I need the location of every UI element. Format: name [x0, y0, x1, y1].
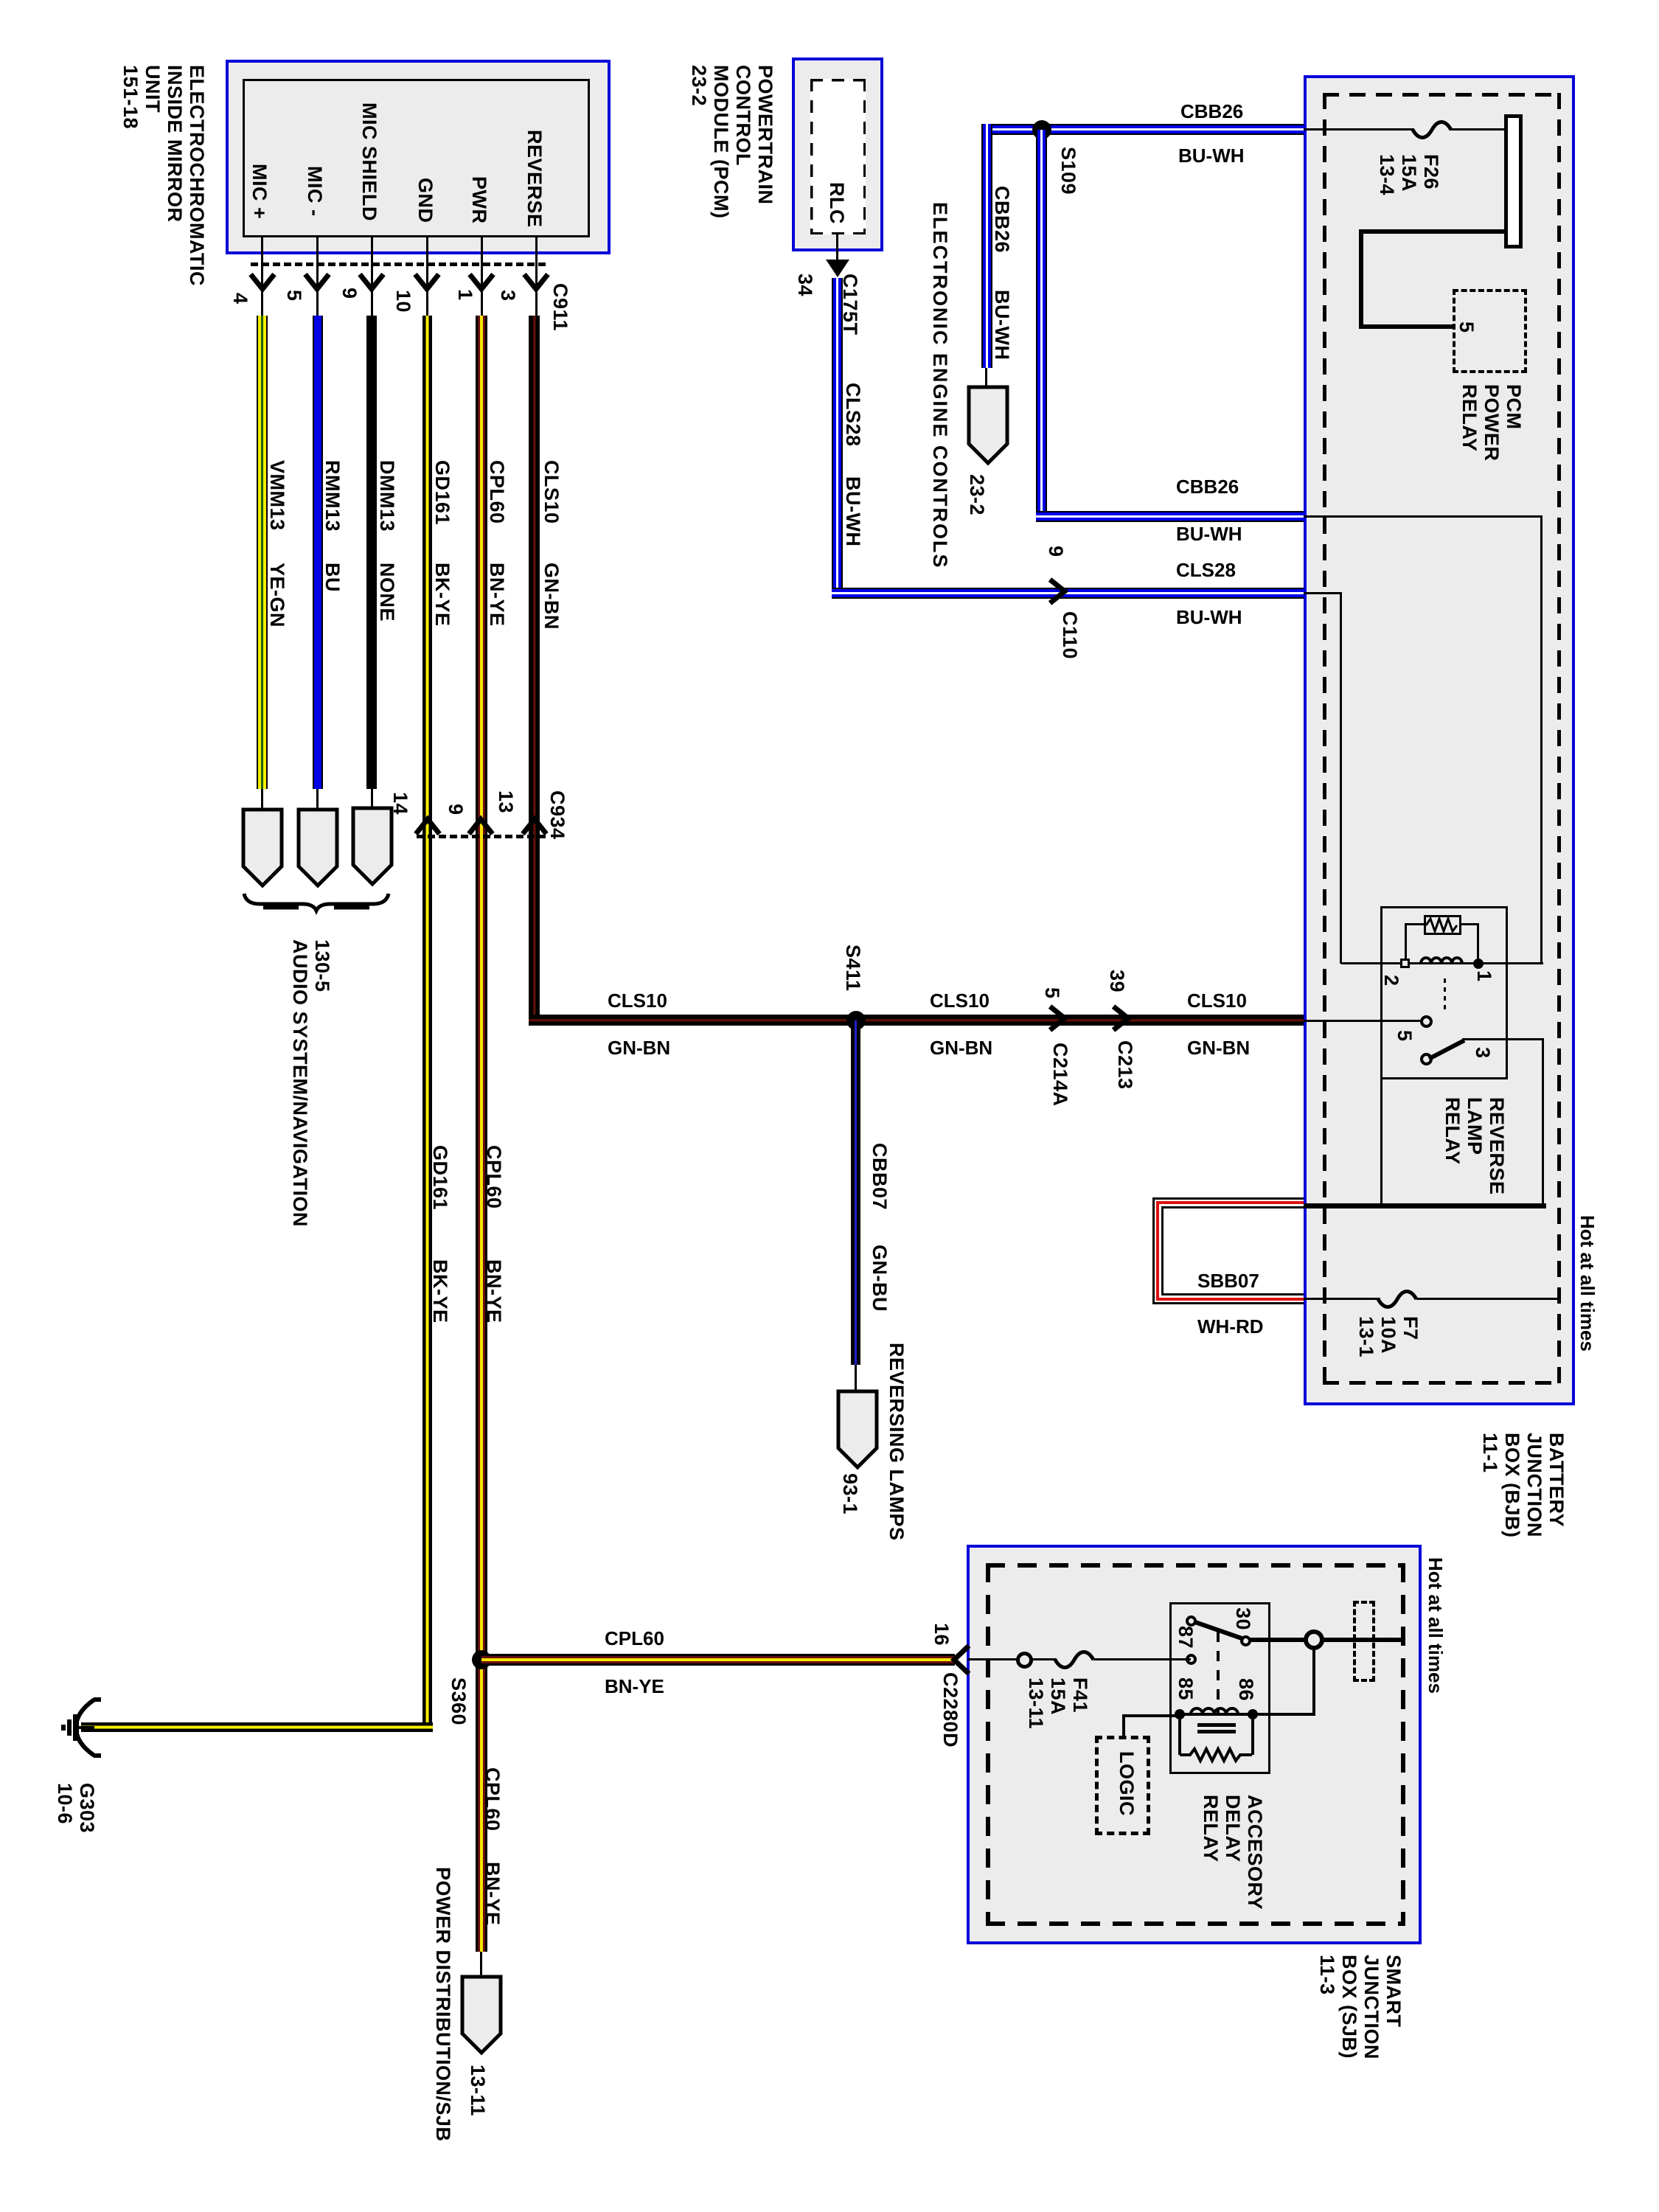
wire bus bar to PCM power relay (vertical segment) [1359, 229, 1363, 329]
resistor zigzag (accessory delay relay) [1180, 1746, 1253, 1764]
stub from RLC [836, 234, 838, 264]
component box BJB [1304, 75, 1575, 1405]
label POWERTRAIN CONTROL MODULE (PCM) 23-2 [688, 65, 776, 218]
dashed box PCM POWER RELAY [1453, 289, 1527, 373]
thick output bus to SBB07 [1302, 1203, 1546, 1208]
dashed component on thick line [1353, 1601, 1375, 1682]
label 13-11 [467, 2065, 489, 2116]
pin 13 [495, 790, 517, 813]
coil core line 2 [1197, 1730, 1236, 1733]
connector label C2280D [939, 1672, 961, 1747]
fuse F41 15A 13-11 [1054, 1641, 1096, 1679]
label REVERSING LAMPS [886, 1343, 908, 1541]
label SBB07 [1197, 1270, 1259, 1292]
wire name CLS28 [842, 383, 864, 447]
wire name CBB26 (EEC branch) [991, 186, 1013, 253]
wire CPL60 BN-YE vertical [476, 316, 487, 1952]
label 130-5 AUDIO SYSTEM/NAVIGATION [289, 939, 333, 1227]
line from circle down to coil (horizontal to pin 86) [1253, 1713, 1315, 1716]
C934 arrows [398, 815, 575, 844]
connector arrow to audio system (mic shield) [351, 806, 394, 887]
pin name MIC - [304, 166, 326, 216]
wire stub pin 4 [261, 237, 263, 320]
wire name DMM13 [376, 460, 398, 532]
bus bar [1504, 114, 1523, 248]
wire SBB07 WH-RD loop inner [1161, 1206, 1304, 1295]
junction S360 [472, 1650, 491, 1669]
wire color BK-YE [431, 563, 453, 627]
pin 3 line horizontal [1462, 1038, 1544, 1040]
connector label C213 [1114, 1040, 1136, 1090]
wire name GD161 [431, 460, 453, 525]
dashed box LOGIC [1095, 1736, 1150, 1835]
pin name GND [414, 178, 437, 223]
wire circle to fuse F41 [1032, 1658, 1057, 1660]
stub to EEC connector [985, 368, 987, 389]
wire stub pin 5 [316, 237, 319, 320]
label CLS10 (mid) [930, 990, 990, 1012]
wire name RMM13 [321, 460, 344, 532]
pin 2 terminal [1400, 959, 1410, 968]
wire bus bar to PCM power relay (top segment) [1359, 229, 1504, 234]
pin 86 label [1235, 1678, 1257, 1701]
pin 85 label [1175, 1677, 1197, 1700]
wire name CPL60 (lower) [483, 1145, 505, 1209]
wire fuse F26 to bus bar [1450, 128, 1506, 131]
wire fuse F7 to hot at all times [1416, 1298, 1561, 1300]
pin 5 [283, 290, 305, 302]
wire CBB26 BU-WH vertical from S109 [1036, 130, 1047, 522]
label CBB26 (second) [1176, 476, 1239, 498]
label CBB26 (top) [1180, 100, 1243, 122]
pin 87 switch circle [1186, 1615, 1197, 1627]
relay coil line [1341, 962, 1543, 964]
pin 5 feed line (CLS10) [1304, 1020, 1420, 1022]
wire CBB26 BU-WH horizontal top [981, 124, 1304, 135]
line from circle down to coil (vertical) [1312, 1649, 1315, 1714]
wire name CPL60 [486, 460, 508, 524]
pin 5 (PCM power relay) [1455, 321, 1478, 333]
connector arrow reversing lamps [836, 1389, 879, 1470]
wire stub pin 3 [535, 237, 538, 320]
wire CLS10 GN-BN vertical [529, 316, 540, 1026]
relay coil bumps [1419, 951, 1467, 964]
F26 feed line [1304, 128, 1414, 131]
wire VMM13 YE-GN vertical [257, 316, 268, 789]
wire color BK-YE (lower) [429, 1259, 451, 1324]
wire stub pin 1 [481, 237, 483, 320]
brace under mic connectors [240, 888, 394, 918]
coil terminal pin 85 [1175, 1709, 1185, 1719]
wire CBB26 BU-WH vertical to EEC [981, 124, 992, 368]
wire color NONE [376, 563, 398, 622]
wire SBB07 WH-RD loop outer [1152, 1197, 1304, 1304]
pin 30 contact circle [1240, 1635, 1251, 1646]
F7 feed line [1304, 1298, 1380, 1300]
pin 87 input circle [1186, 1654, 1197, 1665]
resistor lead left vertical [1405, 923, 1407, 964]
SJB inner dashed border [986, 1563, 1405, 1926]
resistor lead right horizontal [1461, 923, 1478, 925]
wire color BU-WH [842, 476, 864, 546]
label BU-WH (top) [1178, 145, 1245, 167]
label S109 [1057, 147, 1079, 195]
wire color YE-GN [266, 563, 288, 627]
fuse F7 10A 13-1 [1377, 1280, 1419, 1318]
pin name PWR [468, 176, 490, 224]
wire DMM13 BK vertical [366, 316, 377, 789]
pin name REVERSE [524, 130, 546, 228]
pin 4 [229, 293, 251, 305]
pin 1 label [1473, 970, 1495, 982]
CBB26 feed line inside BJB (horizontal) [1304, 515, 1543, 518]
switch arm [1423, 1031, 1470, 1062]
component box PCM [792, 58, 883, 251]
connector label C110 [1059, 611, 1081, 659]
connector arrow to audio system (mic +) [241, 807, 284, 888]
connector C934 dashed line [417, 835, 546, 838]
label ACCESORY DELAY RELAY [1200, 1795, 1266, 1910]
pin 14 [389, 792, 411, 815]
wire CBB26 BU-WH horizontal to BJB (second) [1036, 511, 1304, 522]
pin 9 (C110) [1045, 546, 1067, 557]
line LOGIC to 85 (horizontal) [1122, 1714, 1181, 1717]
label Hot at all times (SJB) [1425, 1557, 1447, 1694]
wire color BN-YE (below S360) [481, 1862, 504, 1926]
mic- wire stub to connector [316, 789, 319, 811]
label 23-2 [966, 474, 988, 515]
resistor lead left horizontal [1405, 923, 1424, 925]
pin 3 line vertical [1542, 1038, 1544, 1207]
dashed box RLC [810, 79, 866, 234]
label GN-BN (left) [608, 1037, 670, 1059]
component box: electrochromatic inside mirror unit [226, 60, 611, 254]
resistor zigzag [1426, 917, 1459, 933]
wire color BN-YE (lower) [483, 1259, 505, 1324]
pin 5 contact circle [1420, 1015, 1433, 1028]
wire stub pin 10 [426, 237, 428, 320]
pin 9 (C934) [445, 804, 467, 815]
pin name MIC + [248, 164, 271, 219]
wire GD161 BK-YE vertical [422, 316, 432, 1728]
ground label G303 10-6 [54, 1783, 98, 1833]
resistor lead right vertical [1477, 923, 1479, 964]
connector label C934 [546, 790, 568, 840]
stub to power distribution connector [480, 1952, 482, 1977]
connector C911 dashed line [251, 262, 546, 266]
label ELECTROCHROMATIC INSIDE MIRROR UNIT 151-18 [119, 65, 208, 286]
dashed link switch [1217, 1632, 1220, 1714]
wire name CPL60 (below S360) [481, 1767, 504, 1832]
wire bus bar to PCM power relay (bottom segment) [1359, 324, 1455, 329]
label PCM POWER RELAY [1458, 384, 1525, 462]
pin 16 [931, 1623, 953, 1646]
pin 1 terminal [1473, 959, 1484, 969]
wire CBB07 GN-BU vertical [851, 1020, 860, 1365]
connector arrow power distribution [460, 1975, 503, 2056]
fuse F26 15A 13-4 [1411, 111, 1454, 149]
label BATTERY JUNCTION BOX (BJB) 11-1 [1479, 1433, 1568, 1538]
F41 feed line [967, 1658, 1019, 1660]
mic+ wire stub to connector [261, 789, 263, 811]
thick line pin 30 to right [1248, 1638, 1405, 1642]
inline circle on thick line [1304, 1630, 1324, 1650]
pin 3 [497, 290, 519, 302]
wire CPL60 BN-YE horizontal to SJB [481, 1654, 955, 1666]
pin 39 (C213) [1106, 970, 1128, 992]
pin name MIC SHIELD [358, 102, 380, 221]
label Hot at all times (BJB) [1576, 1215, 1599, 1352]
mic shield wire stub to connector [371, 789, 373, 811]
wire SBB07 WH-RD loop red stripe [1156, 1201, 1304, 1301]
wire name CBB07 [869, 1143, 891, 1210]
connector arrow to audio system (mic -) [296, 807, 339, 888]
pin 87 label [1175, 1626, 1197, 1649]
wire color GN-BU [869, 1245, 891, 1312]
coil core line 1 [1197, 1723, 1236, 1727]
wire name VMM13 [266, 460, 288, 531]
connector C110 arrow [1044, 577, 1077, 611]
label GN-BN (mid) [930, 1037, 992, 1059]
relay resistor box [1424, 915, 1461, 935]
CLS28 feed line inside BJB (vertical to coil pin 2) [1340, 592, 1342, 964]
label GN-BN (right) [1187, 1037, 1250, 1059]
label S411 [842, 945, 864, 992]
label REVERSE LAMP RELAY [1441, 1097, 1508, 1195]
label RLC [826, 182, 848, 224]
resistor leg right [1251, 1714, 1254, 1755]
wire RMM13 BU vertical [313, 316, 323, 789]
label F7 10A 13-1 [1355, 1316, 1422, 1357]
wire GD161 BK-YE horizontal to ground [81, 1722, 433, 1732]
connector label C175T [839, 274, 861, 335]
connector label C214A [1049, 1043, 1071, 1107]
wire CLS28 BU-WH horizontal to BJB [832, 588, 1304, 599]
C911 arrows [221, 265, 575, 299]
line LOGIC to 85 (vertical) [1122, 1714, 1125, 1736]
label CLS10 (right) [1187, 990, 1247, 1012]
CBB26 feed line inside BJB (vertical to coil pin 1) [1540, 515, 1543, 964]
label F41 15A 13-11 [1025, 1677, 1091, 1729]
switch pivot circle [1420, 1053, 1433, 1065]
label SMART JUNCTION BOX (SJB) 11-3 [1316, 1955, 1405, 2059]
BJB inner dashed border [1323, 93, 1561, 1385]
inline connector circle [1016, 1652, 1033, 1669]
CLS28 feed line inside BJB (horizontal) [1304, 592, 1341, 594]
label ELECTRONIC ENGINE CONTROLS [929, 202, 951, 569]
wire name GD161 (lower) [429, 1145, 451, 1210]
junction S411 [846, 1011, 866, 1030]
relay label box left edge [1380, 1079, 1382, 1207]
wire color BN-YE [486, 563, 508, 627]
label S360 [448, 1677, 470, 1725]
coil line 85-86 [1180, 1713, 1253, 1716]
pin 34 [794, 274, 816, 296]
pin 3 label [1472, 1047, 1494, 1059]
connector C2280D arrow [950, 1643, 979, 1677]
wire color BU [321, 563, 344, 592]
label BU-WH (at BJB) [1176, 606, 1242, 628]
pin 2 label [1380, 975, 1402, 987]
wire fuse F41 to relay pin 87 [1093, 1658, 1191, 1660]
pin 5 (C214A) [1041, 987, 1063, 999]
junction S109 [1032, 120, 1051, 139]
label POWER DISTRIBUTION/SJB [432, 1867, 454, 2142]
connector C213 arrow [1107, 1004, 1140, 1037]
label CLS10 (left) [608, 990, 667, 1012]
stub to reversing lamps connector [855, 1365, 857, 1392]
pin 30 label [1232, 1607, 1254, 1630]
connector C214A arrow [1044, 1004, 1077, 1037]
wire color GN-BN [540, 563, 563, 630]
pin 5 label [1394, 1030, 1416, 1042]
label BU-WH (second) [1176, 523, 1242, 545]
connector arrow electronic engine controls [967, 385, 1009, 466]
label 93-1 [839, 1473, 861, 1514]
pin 9 [338, 288, 361, 299]
wire color BU-WH (EEC branch) [991, 290, 1013, 360]
coil bumps [1189, 1702, 1245, 1715]
coil terminal pin 86 [1248, 1709, 1258, 1719]
relay box accessory delay relay [1169, 1602, 1270, 1774]
label F26 15A 13-4 [1376, 154, 1442, 195]
wire stub pin 9 [371, 237, 373, 320]
label LOGIC [1116, 1751, 1138, 1816]
relay box reverse lamp relay [1380, 906, 1508, 1079]
pin 10 [392, 290, 414, 313]
arrowhead C175T [824, 258, 851, 280]
label BN-YE (horizontal run) [605, 1675, 664, 1697]
dotted link coil to switch [1444, 978, 1446, 1011]
component box SJB [967, 1545, 1422, 1944]
ground symbol G303 [52, 1692, 103, 1766]
label WH-RD [1197, 1315, 1264, 1338]
resistor leg left [1178, 1714, 1181, 1755]
wire name CLS10 [540, 460, 563, 524]
pin 1 [454, 289, 476, 301]
label CPL60 (horizontal run) [605, 1627, 664, 1649]
wire CLS28 BU-WH vertical from PCM [832, 278, 843, 599]
label CLS28 (at BJB) [1176, 559, 1236, 581]
switch arm (87 to 30) [1191, 1616, 1247, 1646]
wire CLS10 GN-BN horizontal [529, 1015, 1304, 1026]
connector label C911 [549, 283, 571, 331]
